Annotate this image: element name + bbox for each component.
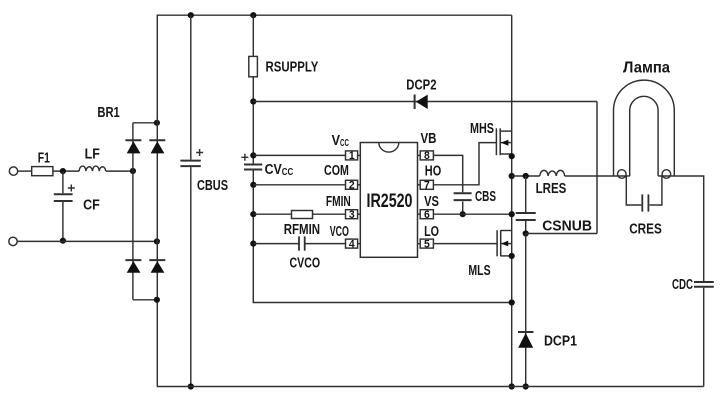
svg-text:CF: CF	[83, 197, 100, 213]
node top rail RSUPPLY	[250, 12, 256, 18]
pin 2 box	[346, 180, 361, 189]
svg-text:CRES: CRES	[629, 222, 662, 238]
pin 7 box	[418, 180, 434, 189]
node LRES left	[509, 173, 515, 179]
svg-text:3: 3	[349, 209, 355, 221]
svg-text:4: 4	[349, 238, 356, 250]
wire VCC rail	[253, 15, 511, 302]
wire - bus bottom rail	[157, 386, 704, 388]
terminal input bottom	[9, 237, 17, 245]
pin 5 box	[418, 239, 434, 248]
node top rail CBUS	[188, 12, 194, 18]
wire F1 to LF	[53, 170, 79, 172]
lamp left cap	[614, 175, 630, 177]
lamp tube outer	[614, 80, 675, 176]
capacitor CF	[62, 171, 64, 193]
svg-text:BR1: BR1	[97, 105, 119, 121]
svg-text:HO: HO	[425, 164, 441, 180]
wire DCP2 net	[253, 102, 597, 234]
pin 8 box	[418, 151, 434, 160]
transistor MHS	[496, 128, 511, 155]
capacitor CBS	[454, 192, 472, 194]
pin 1 box	[346, 151, 361, 160]
svg-text:CDC: CDC	[672, 277, 693, 293]
svg-text:COM: COM	[324, 163, 349, 179]
node pin4 tap	[250, 241, 256, 247]
node pin1 tap	[250, 152, 256, 158]
svg-text:RSUPPLY: RSUPPLY	[266, 59, 319, 75]
wire LF to bridge	[106, 170, 133, 172]
capacitor CBUS	[180, 160, 200, 162]
node CF bottom	[60, 238, 66, 244]
wire bridge left leg	[132, 123, 134, 300]
wire input top to F1	[18, 170, 32, 172]
terminal input top	[9, 167, 17, 175]
wire LO gate	[433, 243, 497, 245]
wire LRES right to lamp	[565, 175, 614, 177]
node VS	[509, 211, 515, 217]
wire CRES left stub	[626, 176, 641, 205]
svg-text:5: 5	[424, 238, 430, 250]
wire lamp right to CDC column	[674, 176, 703, 387]
wire neutral	[17, 240, 157, 242]
svg-text:LO: LO	[424, 224, 439, 240]
svg-text:F1: F1	[38, 151, 50, 167]
svg-text:IR2520: IR2520	[367, 190, 413, 212]
svg-text:8: 8	[424, 150, 430, 162]
wire CSNUB to right	[526, 233, 597, 235]
pin 3 box	[346, 210, 361, 219]
svg-text:VS: VS	[424, 194, 439, 210]
capacitor CSNUB	[525, 176, 527, 234]
node MHS source	[509, 153, 515, 159]
wire CBUS branch	[190, 15, 192, 386]
wire half-bridge vertical	[511, 15, 513, 386]
wire pin3	[253, 213, 345, 215]
wire bridge top	[133, 122, 157, 124]
svg-text:CVCO: CVCO	[290, 256, 321, 272]
resistor RSUPPLY	[249, 56, 258, 76]
transistor MLS	[497, 230, 512, 256]
node after F1	[60, 168, 66, 174]
wire bridge right leg	[156, 123, 158, 387]
inductor LF	[79, 166, 106, 171]
wire HO gate path	[433, 143, 496, 185]
node CSNUB top	[523, 173, 529, 179]
svg-text:CBS: CBS	[475, 189, 496, 205]
wire pin2	[253, 184, 345, 186]
svg-text:MLS: MLS	[468, 263, 490, 279]
wire bridge bottom	[133, 299, 157, 301]
wire CRES right stub	[649, 176, 662, 205]
lamp tube inner	[630, 96, 658, 176]
node DCP1 bottom	[523, 383, 529, 389]
diode BR1 bottom-right	[149, 260, 165, 273]
resistor RFMIN	[292, 211, 313, 219]
node CBUS bottom	[188, 383, 194, 389]
svg-text:1: 1	[349, 150, 355, 162]
wire pin4	[253, 243, 345, 245]
svg-text:RFMIN: RFMIN	[284, 222, 320, 238]
op-amp IC U1 IR2520 body	[360, 143, 417, 258]
node MLS source	[509, 253, 515, 259]
wire LRES left	[512, 175, 540, 177]
diode BR1 bottom-left	[125, 260, 141, 273]
svg-text:CSNUB: CSNUB	[542, 219, 592, 235]
node CSNUB bottom	[523, 230, 529, 236]
node pin3 tap	[250, 211, 256, 217]
lamp right filament	[662, 170, 671, 179]
pin 6 box	[418, 210, 434, 219]
node COM return	[509, 299, 515, 305]
svg-text:VB: VB	[421, 131, 437, 147]
svg-text:VCO: VCO	[330, 224, 349, 240]
svg-text:6: 6	[424, 209, 430, 221]
node bridge minus	[154, 297, 160, 303]
node half-bridge bottom	[509, 383, 515, 389]
diode BR1 top-left	[125, 140, 141, 153]
node AC2	[154, 238, 160, 244]
svg-text:Лампа: Лампа	[623, 60, 670, 77]
node CBS bottom	[460, 211, 466, 217]
node AC1	[130, 168, 136, 174]
wire pin1	[253, 154, 345, 156]
svg-text:FMIN: FMIN	[326, 194, 351, 210]
svg-text:CBUS: CBUS	[197, 178, 228, 194]
diode DCP1	[518, 332, 534, 348]
capacitor CRES	[641, 194, 643, 211]
lamp right cap	[658, 175, 674, 177]
diode BR1 top-right	[149, 140, 165, 153]
svg-text:DCP1: DCP1	[544, 333, 577, 349]
node bridge plus	[154, 120, 160, 126]
fuse F1	[32, 167, 53, 176]
svg-text:MHS: MHS	[470, 121, 494, 137]
diode DCP2	[415, 95, 428, 110]
inductor LRES	[540, 170, 565, 176]
svg-text:2: 2	[349, 180, 355, 192]
capacitor CVCC	[244, 164, 262, 166]
node DCP2 tap	[250, 98, 256, 104]
lamp left filament	[618, 170, 627, 179]
svg-text:LRES: LRES	[536, 181, 567, 197]
wire VS	[433, 213, 511, 215]
capacitor CVCO	[298, 236, 300, 250]
pin 4 box	[346, 239, 361, 248]
wire + bus top rail	[157, 15, 511, 123]
wire pin8 to CBS	[433, 155, 462, 214]
svg-text:DCP2: DCP2	[406, 77, 436, 93]
node pin2 tap	[250, 182, 256, 188]
svg-text:7: 7	[424, 180, 430, 192]
svg-text:LF: LF	[85, 147, 100, 163]
wire DCP1 branch	[525, 234, 527, 387]
capacitor CDC	[694, 281, 714, 283]
